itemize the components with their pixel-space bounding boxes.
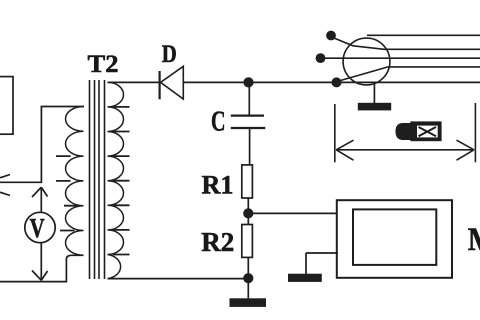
wire J2 to monitor box	[248, 212, 337, 214]
wire main continues right	[337, 81, 480, 83]
node J3	[243, 273, 253, 283]
capacitor C	[248, 82, 250, 114]
monitor box M outer	[337, 200, 452, 278]
dimension extension line left	[334, 104, 336, 162]
dimension extension line right	[474, 103, 476, 162]
arrowhead left (cut at edge)	[0, 175, 10, 196]
resistor R1	[242, 165, 253, 198]
beam line 1	[367, 34, 480, 36]
transformer T2 primary winding	[66, 107, 84, 256]
svg-text:V: V	[30, 213, 45, 243]
electrode dot B	[316, 53, 326, 63]
svg-text:R2: R2	[201, 227, 234, 257]
box (partial, left edge)	[0, 77, 13, 135]
dimension double arrow	[336, 149, 474, 151]
wire J3 to ground	[247, 278, 249, 298]
wire secondary top to diode	[108, 81, 159, 83]
transformer core	[90, 80, 105, 279]
arrow up (voltmeter dimension)	[32, 187, 48, 212]
cathode bar	[358, 103, 391, 111]
resistor R2	[247, 218, 249, 225]
electrode dot A	[326, 31, 336, 41]
node J2	[243, 208, 253, 218]
svg-text:T2: T2	[88, 51, 119, 78]
lead from dot C diagonal	[340, 67, 480, 81]
x-ray tube circle	[343, 38, 390, 85]
lead from dot A	[335, 38, 480, 49]
arrow down (voltmeter dimension)	[32, 243, 48, 280]
wire ground to monitor	[306, 252, 338, 254]
monitor box M inner screen	[353, 209, 436, 265]
wire bottom left	[0, 255, 84, 281]
diode D	[159, 71, 161, 99]
svg-text:R1: R1	[202, 171, 234, 200]
svg-text:M: M	[468, 222, 480, 258]
voltmeter V1 circle	[25, 212, 55, 242]
svg-text:D: D	[162, 41, 177, 68]
node J1	[243, 77, 253, 87]
wire junction to tube	[249, 81, 337, 83]
wire secondary bottom lead	[108, 278, 249, 280]
ground G1	[230, 298, 267, 307]
film badge icon	[396, 123, 413, 140]
wire primary top lead to left	[0, 107, 84, 183]
cathode stub	[373, 84, 375, 104]
ground G2	[288, 274, 322, 282]
svg-text:C: C	[211, 107, 226, 138]
transformer T2 secondary winding	[108, 82, 124, 278]
lead line from dot B through tube	[325, 57, 480, 59]
wire diode to junction	[183, 81, 248, 83]
node dot C on anode wire	[332, 77, 342, 87]
